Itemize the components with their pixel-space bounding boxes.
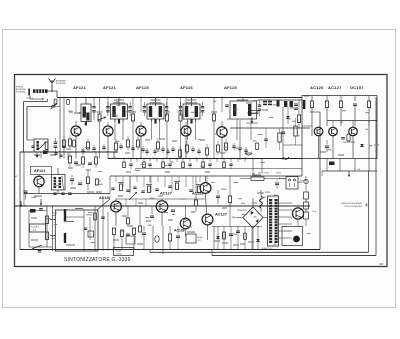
svg-text:OC107: OC107 — [350, 85, 364, 90]
svg-text:SINTONIZZATORE G. 3339: SINTONIZZATORE G. 3339 — [64, 257, 131, 263]
svg-text:AF116: AF116 — [180, 85, 193, 90]
svg-text:R.100KΩ: R.100KΩ — [31, 227, 39, 229]
svg-text:AC126: AC126 — [310, 85, 324, 90]
svg-text:regol.: regol. — [51, 237, 56, 240]
svg-text:AC127: AC127 — [160, 192, 172, 196]
svg-text:462: 462 — [379, 262, 384, 266]
svg-text:AC126: AC126 — [99, 196, 110, 200]
svg-text:ESTERNA: ESTERNA — [56, 82, 66, 85]
svg-text:volume: volume — [116, 253, 122, 255]
svg-text:AC127: AC127 — [328, 85, 342, 90]
svg-text:AF121: AF121 — [73, 85, 87, 90]
svg-text:P.RADDR.: P.RADDR. — [237, 209, 247, 212]
svg-text:RETE 220V: RETE 220V — [258, 173, 270, 175]
svg-text:TENSIONI MISURATE: TENSIONI MISURATE — [341, 202, 363, 205]
svg-text:AF115: AF115 — [224, 85, 237, 90]
svg-text:AC127: AC127 — [215, 213, 227, 217]
svg-text:Regol.: Regol. — [116, 251, 122, 253]
svg-text:T.A.: T.A. — [357, 168, 361, 171]
svg-text:125V: 125V — [276, 173, 281, 175]
svg-text:ESTERNA: ESTERNA — [16, 91, 26, 94]
svg-text:AF121: AF121 — [103, 85, 117, 90]
svg-text:500µF: 500µF — [197, 237, 203, 239]
svg-text:A.T.: A.T. — [33, 229, 37, 232]
svg-text:AC128: AC128 — [174, 229, 185, 233]
svg-text:AF121: AF121 — [34, 169, 45, 173]
svg-text:CON VOLTMETRO: CON VOLTMETRO — [344, 206, 362, 208]
svg-text:AF115: AF115 — [136, 85, 149, 90]
svg-text:ampl.: ampl. — [52, 215, 57, 217]
